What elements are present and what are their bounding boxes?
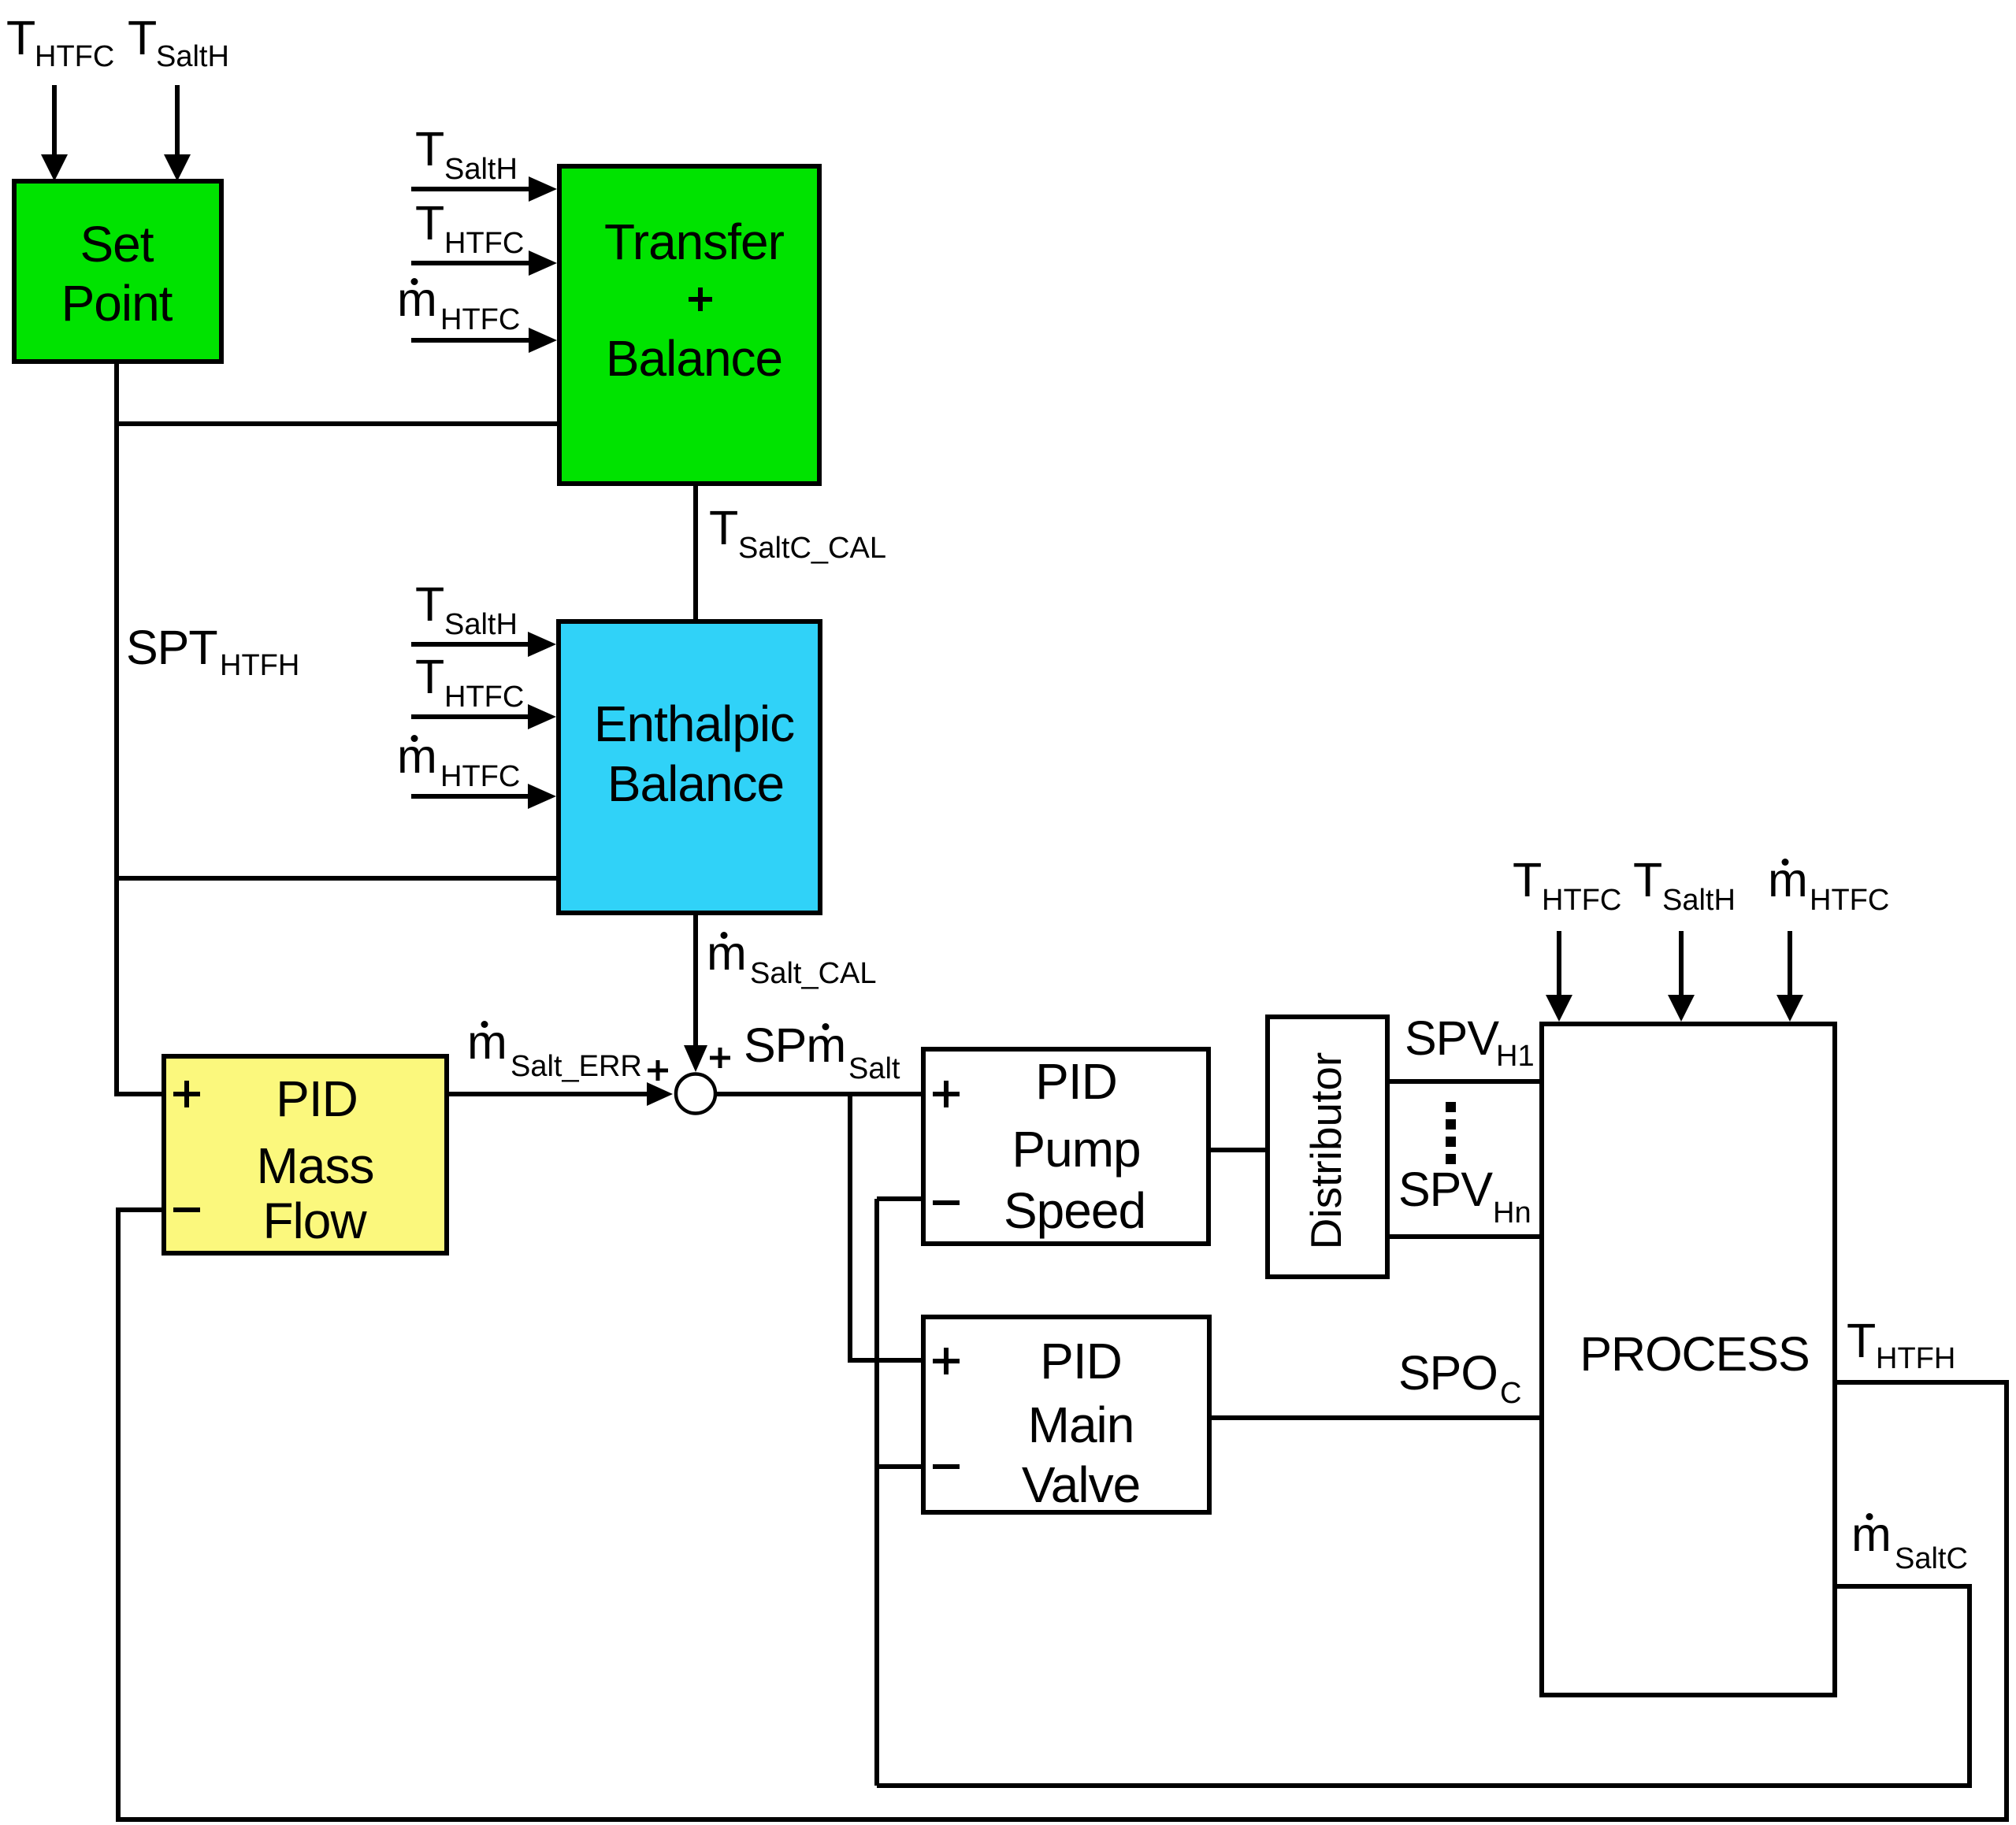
wire feedback to Pump Speed minus	[877, 1196, 921, 1201]
arrowhead T_SaltH into Enthalpic	[528, 632, 556, 657]
svg-text:SaltH: SaltH	[444, 608, 518, 641]
arrowhead T_SaltH into Set Point	[164, 154, 191, 181]
wire m_Salt_CAL Enthalpic to summing junction	[693, 915, 698, 1047]
svg-text:T: T	[1847, 1314, 1875, 1367]
block PROCESS	[1542, 1024, 1835, 1695]
svg-text:T: T	[6, 11, 35, 65]
svg-text:C: C	[1500, 1377, 1521, 1410]
svg-text:SaltH: SaltH	[1662, 884, 1736, 917]
svg-text:T: T	[128, 11, 156, 65]
block PID Main Valve	[923, 1317, 1209, 1513]
svg-text:PID: PID	[276, 1070, 358, 1127]
svg-text:T: T	[415, 650, 444, 703]
svg-text:HTFC: HTFC	[1542, 884, 1621, 917]
svg-text:T: T	[415, 122, 444, 176]
ARROWHEADS	[41, 154, 1803, 1106]
wire SPT_HTFH into Mass Flow plus	[114, 1092, 162, 1096]
wire SPO_C Main Valve to PROCESS	[1212, 1415, 1539, 1420]
wire m_HTFC into Transfer	[411, 338, 530, 343]
svg-text:T: T	[415, 196, 444, 250]
arrowhead T_HTFC into PROCESS	[1546, 995, 1572, 1022]
wire T_HTFC arrow into Set Point	[52, 85, 57, 156]
svg-text:SaltC_CAL: SaltC_CAL	[738, 532, 886, 565]
svg-text:Transfer: Transfer	[604, 213, 785, 270]
arrowhead m_HTFC into Transfer	[529, 328, 557, 353]
svg-text:T: T	[415, 577, 444, 631]
arrowhead m_Salt_CAL into junction	[684, 1045, 707, 1072]
wire T_HTFH feedback from PROCESS	[118, 1210, 2007, 1819]
plus sign at junction left	[648, 1060, 668, 1081]
svg-text:Mass: Mass	[257, 1137, 374, 1194]
svg-text:SPV: SPV	[1405, 1011, 1499, 1065]
summing junction	[676, 1074, 715, 1114]
block Transfer + Balance	[559, 166, 819, 484]
block Set Point	[14, 181, 221, 362]
wire SPm_Salt branch down to Main Valve	[850, 1094, 921, 1360]
wire SPT_HTFH branch to Transfer	[117, 421, 557, 426]
svg-text:T: T	[1513, 853, 1541, 907]
wire Pump Speed to Distributor	[1211, 1148, 1265, 1152]
svg-text:Salt_CAL: Salt_CAL	[750, 957, 877, 990]
svg-text:T: T	[1633, 853, 1661, 907]
arrowhead m_Salt_ERR into junction	[647, 1082, 673, 1106]
svg-text:PID: PID	[1040, 1333, 1122, 1389]
svg-text:Main: Main	[1028, 1397, 1134, 1453]
svg-text:Valve: Valve	[1022, 1456, 1140, 1513]
svg-text:SPO: SPO	[1398, 1346, 1498, 1400]
svg-text:Enthalpic: Enthalpic	[594, 696, 794, 752]
wire feedback trunk m_SaltC	[874, 1199, 879, 1786]
svg-text:PROCESS: PROCESS	[1580, 1327, 1809, 1381]
plus sign at junction top right	[710, 1048, 730, 1068]
wire SPm_Salt junction to Pump Speed	[715, 1092, 921, 1096]
svg-text:H1: H1	[1496, 1040, 1535, 1073]
block Distributor	[1268, 1017, 1387, 1277]
arrowhead T_HTFC into Enthalpic	[528, 704, 556, 729]
svg-text:Point: Point	[61, 275, 173, 332]
block PID Mass Flow	[164, 1056, 447, 1253]
wire m_SaltC feedback from PROCESS	[877, 1586, 1970, 1786]
svg-text:Distributor: Distributor	[1301, 1052, 1350, 1250]
wire m_Salt_ERR Mass Flow to summing junction	[449, 1092, 648, 1096]
wire m_HTFC arrow into PROCESS	[1788, 931, 1792, 996]
arrowhead T_HTFC into Set Point	[41, 154, 68, 181]
wire SPV_H1 Distributor to PROCESS	[1390, 1079, 1539, 1084]
plus input Pump Speed	[933, 1081, 960, 1107]
svg-text:SaltC: SaltC	[1895, 1542, 1968, 1575]
minus input Mass Flow	[173, 1207, 200, 1212]
wire T_SaltH into Enthalpic	[411, 642, 529, 647]
svg-text:Set: Set	[80, 216, 154, 273]
svg-text:HTFH: HTFH	[1876, 1342, 1955, 1375]
plus input Mass Flow	[173, 1081, 200, 1107]
svg-text:SPm: SPm	[744, 1018, 845, 1072]
block Enthalpic Balance	[559, 621, 820, 913]
svg-text:T: T	[709, 501, 737, 555]
wire m_HTFC into Enthalpic	[411, 794, 529, 799]
arrowhead T_SaltH into PROCESS	[1668, 995, 1695, 1022]
wire SPV_Hn Distributor to PROCESS	[1390, 1234, 1539, 1239]
minus input Pump Speed	[933, 1200, 960, 1205]
wire SPT_HTFH trunk from Set Point	[114, 364, 119, 1096]
block PID Pump Speed	[923, 1049, 1208, 1244]
svg-text:Balance: Balance	[606, 330, 782, 387]
svg-text:Flow: Flow	[262, 1193, 367, 1249]
svg-text:SPV: SPV	[1398, 1163, 1493, 1216]
svg-text:HTFC: HTFC	[444, 227, 524, 260]
wire T_SaltH into Transfer	[411, 187, 530, 191]
plus input Main Valve	[933, 1348, 960, 1374]
arrowhead m_HTFC into Enthalpic	[528, 784, 556, 809]
minus input Main Valve	[933, 1464, 960, 1469]
dotted ellipsis between SPV lines	[1446, 1102, 1456, 1164]
svg-text:PID: PID	[1035, 1053, 1117, 1110]
wire SPT_HTFH branch to Enthalpic	[117, 876, 556, 881]
svg-text:SaltH: SaltH	[444, 153, 518, 186]
svg-text:HTFC: HTFC	[440, 760, 520, 793]
svg-text:Salt: Salt	[848, 1052, 900, 1085]
wire T_SaltC_CAL Transfer to Enthalpic	[693, 486, 698, 619]
svg-text:Hn: Hn	[1493, 1196, 1531, 1230]
svg-text:SaltH: SaltH	[156, 40, 229, 73]
svg-text:Speed: Speed	[1004, 1182, 1145, 1239]
svg-text:HTFC: HTFC	[440, 303, 520, 336]
svg-text:HTFC: HTFC	[35, 40, 114, 73]
svg-text:Balance: Balance	[607, 755, 784, 812]
svg-text:HTFC: HTFC	[444, 681, 524, 714]
wire feedback branch to Main Valve minus	[877, 1464, 921, 1469]
wire T_HTFC into Transfer	[411, 261, 530, 265]
wire T_HTFC into Enthalpic	[411, 714, 529, 719]
arrowhead T_HTFC into Transfer	[529, 250, 557, 276]
svg-text:Pump: Pump	[1012, 1121, 1140, 1178]
wire T_HTFC arrow into PROCESS	[1557, 931, 1561, 996]
wire T_SaltH arrow into PROCESS	[1679, 931, 1684, 996]
arrowhead T_SaltH into Transfer	[529, 176, 557, 202]
wire T_SaltH arrow into Set Point	[175, 85, 180, 156]
arrowhead m_HTFC into PROCESS	[1777, 995, 1803, 1022]
svg-text:HTFH: HTFH	[220, 649, 299, 682]
svg-text:Salt_ERR: Salt_ERR	[510, 1050, 642, 1083]
svg-text:SPT: SPT	[126, 621, 217, 674]
svg-text:HTFC: HTFC	[1810, 884, 1889, 917]
